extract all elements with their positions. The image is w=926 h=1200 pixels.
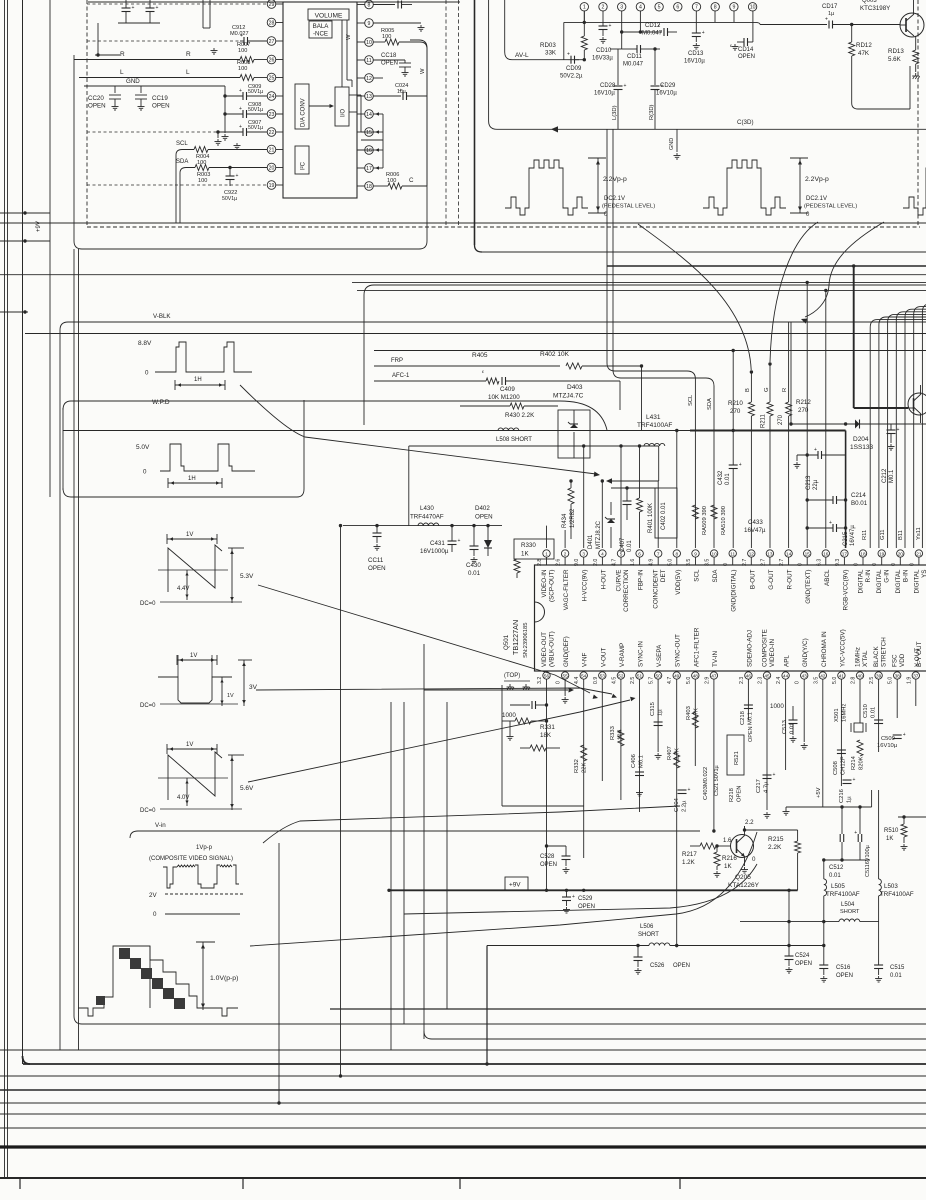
svg-text:SHORT: SHORT [840, 909, 860, 915]
svg-text:CD10: CD10 [596, 48, 612, 54]
svg-text:3.2: 3.2 [537, 677, 543, 684]
svg-text:100: 100 [198, 178, 207, 184]
wire top stub row [88, 1, 460, 3]
svg-text:2.5: 2.5 [869, 677, 875, 684]
wire diag D2 [250, 832, 757, 946]
capacitor C432 [729, 429, 742, 548]
svg-text:820K: 820K [859, 756, 865, 770]
svg-text:FBP-IN: FBP-IN [638, 569, 645, 590]
svg-text:DC=0: DC=0 [140, 808, 156, 814]
wire comb box [789, 322, 926, 426]
svg-text:Y/C-VCC(5V): Y/C-VCC(5V) [839, 629, 846, 667]
svg-text:CD09: CD09 [566, 66, 582, 72]
svg-text:L503: L503 [884, 883, 898, 890]
node R11 label [862, 530, 868, 540]
svg-text:SHORT: SHORT [638, 932, 659, 938]
svg-text:1/2R82: 1/2R82 [570, 508, 576, 528]
capacitor C907 [216, 120, 267, 138]
svg-text:5.6K: 5.6K [888, 56, 902, 63]
svg-text:C404: C404 [674, 797, 680, 812]
svg-text:1: 1 [545, 551, 548, 556]
node BALANCE box [309, 21, 332, 38]
capacitor C024 [373, 49, 427, 100]
waveform staircase [78, 942, 238, 1016]
inductor L431 [637, 414, 672, 446]
svg-text:29: 29 [269, 2, 275, 8]
svg-text:G: G [764, 387, 770, 392]
node X501 label [834, 704, 848, 722]
svg-text:100: 100 [382, 34, 391, 40]
svg-text:L430: L430 [420, 505, 434, 512]
svg-text:C516: C516 [836, 965, 851, 971]
svg-text:RD03: RD03 [540, 42, 556, 49]
svg-text:DET: DET [660, 569, 667, 582]
resistor R401 label [648, 503, 654, 533]
svg-text:B0.01: B0.01 [851, 500, 868, 507]
node R333 label [610, 726, 624, 740]
wire C3D rail [489, 0, 926, 129]
svg-text:M0.1: M0.1 [748, 712, 754, 725]
svg-text:C214: C214 [851, 492, 866, 499]
svg-text:R: R [782, 388, 788, 392]
wire mid hline 525 [343, 525, 502, 527]
wire AFC-1 [374, 369, 499, 384]
svg-text:BALA: BALA [313, 23, 330, 30]
svg-text:COINCIDENT: COINCIDENT [653, 569, 660, 608]
capacitor C512 [829, 807, 844, 879]
svg-text:1000: 1000 [502, 712, 516, 719]
svg-text:R407: R407 [667, 746, 673, 760]
svg-text:Ys11: Ys11 [916, 527, 922, 540]
node IC top pin labels [541, 569, 926, 612]
svg-text:C529: C529 [578, 896, 593, 902]
svg-text:+: + [239, 88, 242, 94]
wire arrow y690 [424, 688, 574, 693]
svg-text:16V10µ: 16V10µ [656, 91, 677, 97]
wire B [748, 370, 754, 548]
node TOP label [504, 673, 530, 681]
node B11 label [898, 530, 904, 540]
ground audio b [215, 139, 222, 145]
svg-text:1.6: 1.6 [630, 559, 636, 566]
wire rail y350 [374, 350, 926, 352]
svg-text:1.2K: 1.2K [682, 859, 696, 866]
svg-text:VAGC-FILTER: VAGC-FILTER [563, 569, 570, 610]
wire rd12 bottom [852, 66, 910, 109]
svg-text:+: + [897, 427, 900, 433]
node Q205 labels [723, 819, 760, 889]
svg-text:CD11: CD11 [627, 54, 643, 60]
inductor L503 [879, 790, 914, 965]
wire pin1 stub [583, 11, 586, 24]
svg-text:1K: 1K [886, 836, 893, 842]
wire box edge [408, 446, 410, 526]
svg-text:50V1µ: 50V1µ [222, 196, 237, 202]
svg-text:9.3: 9.3 [835, 559, 841, 566]
wire rail y333 [25, 333, 926, 335]
wire R line [74, 51, 267, 60]
svg-text:+: + [814, 447, 817, 453]
svg-text:13: 13 [767, 551, 773, 556]
wire WPD line [63, 401, 607, 430]
svg-text:APL: APL [784, 655, 791, 667]
svg-text:3.5: 3.5 [686, 559, 692, 566]
wire dashed enclosure right [917, 0, 919, 227]
capacitor C216 [839, 777, 856, 803]
node dot 675 [675, 944, 678, 947]
node IC bottom pin labels [541, 627, 921, 667]
svg-text:0: 0 [795, 681, 801, 684]
svg-text:47: 47 [711, 673, 717, 678]
svg-text:R-IN: R-IN [865, 569, 872, 582]
svg-text:OPEN: OPEN [540, 862, 557, 868]
svg-text:G11: G11 [880, 529, 886, 540]
svg-text:V-SEPA: V-SEPA [656, 644, 663, 667]
svg-text:0: 0 [723, 563, 729, 566]
svg-text:3.5: 3.5 [813, 677, 819, 684]
wire pin15 up [806, 281, 809, 548]
svg-text:OPEN: OPEN [381, 61, 398, 67]
svg-text:21: 21 [269, 147, 275, 153]
svg-text:9: 9 [694, 551, 697, 556]
wire L line [79, 69, 267, 78]
svg-text:+: + [829, 520, 832, 526]
svg-text:M0.1: M0.1 [889, 469, 895, 483]
wire rail 913 [404, 864, 757, 914]
svg-text:H-OUT: H-OUT [600, 569, 607, 589]
wire bold rail 890 [387, 889, 797, 892]
svg-text:2.7: 2.7 [760, 559, 766, 566]
capacitor C409 [488, 377, 620, 410]
svg-text:TRF4100AF: TRF4100AF [637, 422, 672, 429]
svg-text:+9V: +9V [509, 882, 521, 889]
capacitor CD11 [620, 30, 650, 67]
svg-text:OPEN: OPEN [795, 961, 812, 967]
svg-text:SDEMO-ADJ: SDEMO-ADJ [746, 630, 753, 667]
capacitor C918 [373, 0, 412, 9]
svg-text:R214: R214 [851, 755, 857, 770]
svg-text:STRETCH: STRETCH [881, 637, 888, 667]
svg-text:0: 0 [145, 370, 149, 377]
svg-text:GND(TEXT): GND(TEXT) [805, 570, 812, 604]
capacitor C315 [650, 702, 664, 725]
svg-text:R510: R510 [884, 828, 899, 834]
svg-text:RA510 390: RA510 390 [721, 506, 727, 535]
capacitor C528 [540, 844, 571, 873]
resistor R210 label [728, 400, 743, 415]
svg-text:L508 SHORT: L508 SHORT [496, 437, 532, 443]
capacitor small a [510, 701, 548, 709]
ground audio gnd-line [222, 134, 229, 140]
svg-text:5: 5 [620, 551, 623, 556]
svg-text:YS: YS [921, 570, 926, 578]
node +5V label [816, 787, 822, 798]
svg-text:C433: C433 [748, 519, 763, 526]
wire vert x424 [423, 644, 425, 1039]
capacitor C433 [744, 519, 766, 534]
svg-text:SCL: SCL [694, 569, 701, 582]
capacitor C404 [674, 787, 691, 812]
svg-text:5.7: 5.7 [649, 677, 655, 684]
svg-text:+: + [236, 173, 239, 179]
node C521 label [714, 764, 720, 796]
capacitor CC20 [88, 86, 121, 110]
capacitor top C902 [146, 0, 159, 23]
svg-text:SDA: SDA [712, 569, 719, 583]
svg-text:4.9: 4.9 [649, 559, 655, 566]
svg-text:2.7K: 2.7K [675, 748, 681, 760]
svg-text:+: + [854, 830, 857, 836]
wire pin2 cap CD10 [592, 11, 613, 62]
svg-text:52: 52 [618, 673, 624, 678]
capacitor CD12 [622, 11, 677, 37]
svg-text:VDD(5V): VDD(5V) [675, 570, 682, 595]
node I/O box [335, 87, 349, 126]
wire SCL [176, 141, 267, 155]
svg-text:CHROMA IN: CHROMA IN [821, 631, 828, 667]
svg-text:CORRECTION: CORRECTION [623, 569, 630, 612]
wire cap join [95, 23, 160, 57]
svg-text:OPEN: OPEN [748, 726, 754, 742]
wire q205 base net [690, 843, 731, 849]
wire SCL drop [175, 155, 177, 223]
svg-text:+: + [825, 17, 828, 23]
svg-text:100: 100 [387, 178, 396, 184]
svg-text:0.9: 0.9 [593, 677, 599, 684]
svg-text:C526: C526 [650, 963, 665, 969]
svg-text:GND: GND [126, 78, 140, 85]
svg-text:0: 0 [806, 212, 810, 218]
svg-text:+: + [853, 777, 856, 783]
wire heavy left rail [475, 0, 483, 252]
wire curve A [638, 224, 751, 370]
svg-text:V-RAMP: V-RAMP [619, 643, 626, 667]
svg-text:ABCL: ABCL [824, 569, 831, 586]
capacitor C212 [882, 424, 900, 483]
resistor R402 [472, 351, 643, 430]
svg-text:0: 0 [798, 563, 804, 566]
capacitor C524 [785, 889, 813, 973]
svg-text:0: 0 [153, 911, 157, 918]
svg-text:12: 12 [749, 551, 755, 556]
wire vert x73 [74, 249, 82, 1024]
wire rail y274 [0, 274, 926, 276]
wire bus thick [0, 1145, 926, 1148]
svg-text:38: 38 [895, 673, 901, 678]
wire vert x60 [59, 330, 61, 1050]
wire pin7 up [657, 481, 659, 548]
wire SCL long [607, 129, 695, 548]
wire SDA [176, 159, 267, 173]
svg-text:DIGITAL: DIGITAL [858, 569, 865, 594]
wire pin10 W [373, 28, 427, 49]
wire bus 1024 [82, 1023, 926, 1025]
wire rail y430 [63, 430, 846, 432]
svg-text:AV-L: AV-L [515, 52, 529, 59]
svg-text:CH12P: CH12P [841, 756, 847, 775]
node R330 box [514, 539, 554, 559]
wire AV-L line [505, 0, 568, 60]
resistor R430 [460, 403, 558, 419]
svg-text:VDD: VDD [899, 653, 906, 667]
svg-text:50V1µ: 50V1µ [248, 107, 263, 113]
wire bus 1009 [330, 1008, 926, 1010]
svg-text:16V33µ: 16V33µ [592, 56, 613, 62]
wire drop 487 [485, 946, 488, 1066]
svg-text:GND(Y/C): GND(Y/C) [802, 638, 809, 667]
ground ic top b [523, 684, 531, 690]
svg-text:1µ: 1µ [828, 11, 835, 17]
svg-text:R405: R405 [472, 352, 488, 359]
node R218 label [729, 786, 743, 802]
wire pin6 up [637, 444, 643, 548]
capacitor top C901 [122, 0, 135, 23]
wire GND line [84, 78, 225, 133]
capacitor C217 [756, 772, 776, 793]
svg-text:RD13: RD13 [888, 48, 904, 55]
node I2C box [295, 146, 309, 174]
svg-text:0.01: 0.01 [725, 473, 731, 485]
inductor L504 [740, 902, 879, 923]
ground lower b [655, 753, 662, 759]
inductor L506 [638, 924, 670, 946]
svg-text:M0.047: M0.047 [623, 62, 644, 68]
capacitor C214 [806, 492, 868, 507]
svg-text:53: 53 [600, 673, 606, 678]
svg-text:8: 8 [675, 551, 678, 556]
svg-text:3: 3 [582, 551, 585, 556]
svg-text:C510: C510 [863, 704, 869, 718]
svg-text:R332: R332 [574, 759, 580, 773]
waveform 5.0V [136, 444, 255, 488]
svg-text:0: 0 [143, 469, 147, 476]
capacitor CD09 [560, 52, 586, 80]
node IC name [503, 620, 529, 658]
node GND label [669, 129, 681, 159]
svg-text:L: L [186, 69, 190, 76]
svg-text:GND(DEF): GND(DEF) [563, 636, 570, 667]
op-amp U501 TB1227AN body [535, 565, 926, 671]
ground mid1 [794, 462, 801, 468]
resistor RA510 [711, 505, 717, 519]
svg-text:L: L [120, 69, 124, 76]
svg-text:D/A CONV: D/A CONV [301, 98, 307, 127]
svg-text:R(3D): R(3D) [649, 104, 655, 120]
wire dashed enclosure vertical [86, 0, 88, 227]
svg-text:48: 48 [693, 673, 699, 678]
svg-text:4: 4 [601, 551, 604, 556]
svg-text:C524: C524 [795, 953, 810, 959]
svg-text:SN:23906185: SN:23906185 [523, 623, 529, 658]
svg-text:R330: R330 [521, 542, 536, 549]
svg-text:+: + [239, 124, 242, 130]
waveform 8.8V [138, 340, 252, 390]
node RA509 label [702, 506, 708, 535]
svg-text:16V47µ: 16V47µ [744, 527, 766, 534]
waveform 2.2Vpp right [703, 158, 857, 218]
svg-text:10: 10 [366, 40, 372, 46]
svg-text:20: 20 [269, 165, 275, 171]
svg-text:2.4: 2.4 [776, 677, 782, 684]
svg-text:B-Y OUT: B-Y OUT [916, 641, 923, 667]
svg-text:RD12: RD12 [856, 42, 872, 49]
svg-text:11: 11 [730, 551, 735, 556]
wire composite drop [277, 843, 280, 1105]
svg-text:1.9: 1.9 [906, 677, 912, 684]
svg-text:SCL: SCL [176, 141, 188, 147]
svg-text:1.6: 1.6 [723, 838, 732, 844]
svg-text:40: 40 [857, 673, 863, 678]
capacitor CD14 [730, 11, 755, 60]
svg-text:AFC-1: AFC-1 [392, 373, 410, 379]
waveform 2.2Vpp left [505, 158, 655, 218]
svg-text:4.7: 4.7 [612, 559, 618, 566]
svg-text:1.0V(p-p): 1.0V(p-p) [210, 975, 238, 982]
wire pin12 stub [373, 77, 383, 79]
svg-text:L505: L505 [831, 883, 845, 890]
node R407 label [667, 746, 681, 760]
svg-text:VOLUME: VOLUME [315, 13, 343, 20]
svg-text:47K: 47K [858, 50, 870, 57]
wire IC bottom pin drops [547, 679, 916, 947]
svg-text:B-OUT: B-OUT [749, 569, 756, 589]
capacitor C430 [466, 524, 481, 577]
wire +9 rail drop [844, 431, 847, 549]
svg-text:16V10µ: 16V10µ [877, 743, 898, 749]
ground ic top a [507, 684, 515, 690]
svg-text:DIGITAL: DIGITAL [876, 569, 883, 594]
svg-text:16: 16 [366, 148, 372, 154]
svg-text:TRF4100AF: TRF4100AF [880, 891, 914, 898]
svg-text:L506: L506 [640, 924, 654, 930]
svg-text:D204: D204 [853, 436, 869, 443]
crystal X501 [851, 723, 866, 732]
svg-text:X'TAL: X'TAL [862, 650, 869, 667]
inductor L430 [410, 505, 444, 526]
svg-text:V-OUT: V-OUT [600, 648, 607, 667]
svg-text:21: 21 [916, 551, 922, 556]
svg-text:C431: C431 [430, 540, 445, 547]
resistor R215 [743, 828, 801, 890]
capacitor CD29 [650, 47, 677, 129]
node R332 label [574, 759, 588, 773]
svg-text:OPEN: OPEN [673, 963, 690, 969]
node D401 label [588, 520, 602, 549]
svg-text:R-OUT: R-OUT [787, 569, 794, 589]
wire bus 1039 [424, 1031, 926, 1039]
svg-text:CD17: CD17 [822, 4, 838, 10]
svg-text:R216: R216 [722, 855, 737, 862]
svg-text:R430 2.2K: R430 2.2K [505, 412, 535, 419]
wire title tick 3 [459, 1178, 461, 1189]
node G label [764, 387, 770, 392]
svg-text:R333: R333 [610, 726, 616, 740]
resistor R407 [674, 752, 680, 768]
op-amp audio IC body [283, 2, 357, 198]
wire bus 1128 [0, 1127, 926, 1129]
node R3D [649, 104, 655, 120]
svg-text:13: 13 [366, 94, 372, 100]
svg-text:C315: C315 [650, 702, 656, 716]
svg-text:2: 2 [564, 551, 567, 556]
svg-text:15: 15 [366, 130, 372, 136]
node +9V box [505, 877, 528, 890]
wire audio block outline [74, 40, 427, 249]
wire io fan [361, 114, 383, 168]
ground audio c [234, 143, 241, 149]
svg-text:BLACK: BLACK [873, 646, 880, 667]
svg-text:22: 22 [269, 130, 275, 136]
